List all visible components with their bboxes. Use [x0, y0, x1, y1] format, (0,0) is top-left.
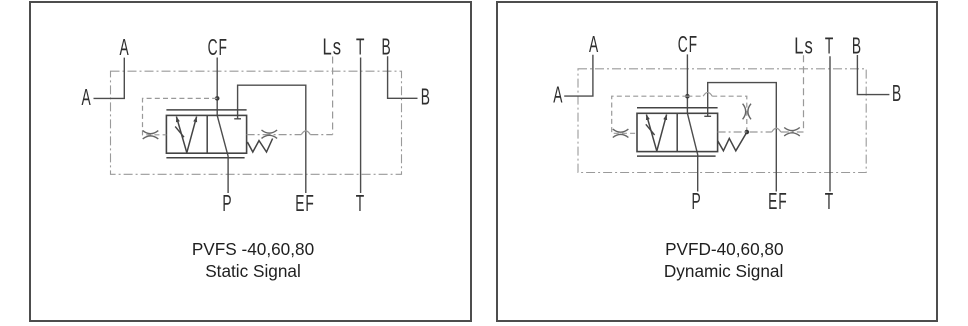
wire A	[564, 55, 593, 96]
orifice (Ls pilot)	[262, 130, 278, 138]
valve V2 body	[637, 113, 718, 151]
valve V2 parallel line (bottom)	[637, 155, 716, 157]
svg-text:PVFS -40,60,80: PVFS -40,60,80	[192, 239, 314, 259]
valve V2 flow arrow (left)	[646, 115, 656, 152]
wire B	[388, 56, 418, 98]
pilot line (CF to spring chamber, dashed)	[687, 96, 746, 132]
pilot line Ls (dash-dot) hop	[301, 131, 310, 135]
wire Ls (dashed pilot)	[332, 57, 334, 135]
valve V1 flow arrow (left)	[176, 117, 186, 153]
svg-text:T: T	[825, 190, 834, 215]
svg-text:EF: EF	[768, 190, 787, 215]
valve V2 parallel line (top)	[637, 107, 718, 109]
variable restrictor slash	[175, 127, 184, 138]
svg-text:A: A	[81, 85, 91, 110]
svg-text:P: P	[222, 192, 232, 217]
wire CF	[686, 54, 688, 113]
valve V1 parallel line (top)	[166, 109, 246, 111]
subplate enclosure (dash-dot boundary)	[111, 71, 402, 174]
valve V2 flow arrow (right)	[657, 115, 667, 152]
valve V1 parallel line (bottom)	[166, 157, 244, 159]
svg-text:T: T	[356, 35, 365, 60]
svg-text:T: T	[825, 34, 834, 59]
pilot line Ls (dash-dot)	[247, 134, 333, 136]
orifice (left pilot)	[613, 129, 629, 137]
node CF pilot junction	[685, 94, 690, 99]
valve V1 body	[166, 115, 246, 153]
spring (valve V2)	[718, 132, 747, 151]
svg-text:P: P	[692, 190, 702, 215]
wire B	[857, 55, 889, 95]
wire T	[829, 56, 831, 191]
pilot hop over EF route	[703, 92, 712, 96]
svg-text:B: B	[381, 35, 391, 60]
panel border	[30, 2, 471, 321]
svg-text:EF: EF	[295, 192, 314, 217]
svg-text:CF: CF	[208, 35, 228, 60]
svg-text:CF: CF	[678, 32, 698, 57]
svg-text:A: A	[589, 32, 599, 57]
pilot pin tick	[704, 115, 711, 117]
pilot pin tick	[234, 118, 241, 120]
svg-text:PVFD-40,60,80: PVFD-40,60,80	[665, 239, 783, 259]
wire P	[687, 113, 697, 191]
wire T	[360, 58, 362, 194]
svg-text:B: B	[421, 85, 431, 110]
valve V2 position divider	[676, 113, 678, 151]
svg-text:A: A	[553, 83, 563, 108]
svg-text:Dynamic Signal: Dynamic Signal	[664, 261, 783, 281]
pilot line Ls (dash-dot)	[718, 131, 804, 133]
node spring-chamber junction	[745, 130, 750, 135]
valve V1 flow arrow (right)	[187, 117, 197, 153]
wire Ls (dashed pilot)	[803, 55, 805, 132]
svg-text:B: B	[892, 82, 902, 107]
orifice (left pilot)	[143, 131, 159, 139]
svg-text:T: T	[356, 192, 365, 217]
orifice (Ls pilot)	[784, 128, 800, 136]
wire A	[94, 58, 125, 99]
orifice (dynamic signal)	[743, 104, 751, 120]
svg-text:Static Signal: Static Signal	[205, 261, 301, 281]
panel border	[497, 2, 937, 321]
wire EF (pilot over-route)	[238, 85, 306, 193]
pilot line Ls (dash-dot) hop	[772, 128, 781, 132]
node CF pilot junction	[215, 96, 220, 101]
wire CF	[216, 58, 218, 116]
pilot line (CF to compensator, dashed)	[143, 98, 218, 134]
wire EF (pilot over-route)	[708, 83, 777, 192]
subplate enclosure (dash-dot boundary)	[578, 69, 866, 173]
variable restrictor slash	[646, 124, 655, 135]
valve V1 position divider	[206, 115, 208, 153]
svg-text:A: A	[120, 35, 130, 60]
spring (valve V1)	[247, 139, 272, 153]
wire P	[217, 115, 228, 193]
pilot line (CF to compensator, dashed)	[612, 96, 688, 133]
